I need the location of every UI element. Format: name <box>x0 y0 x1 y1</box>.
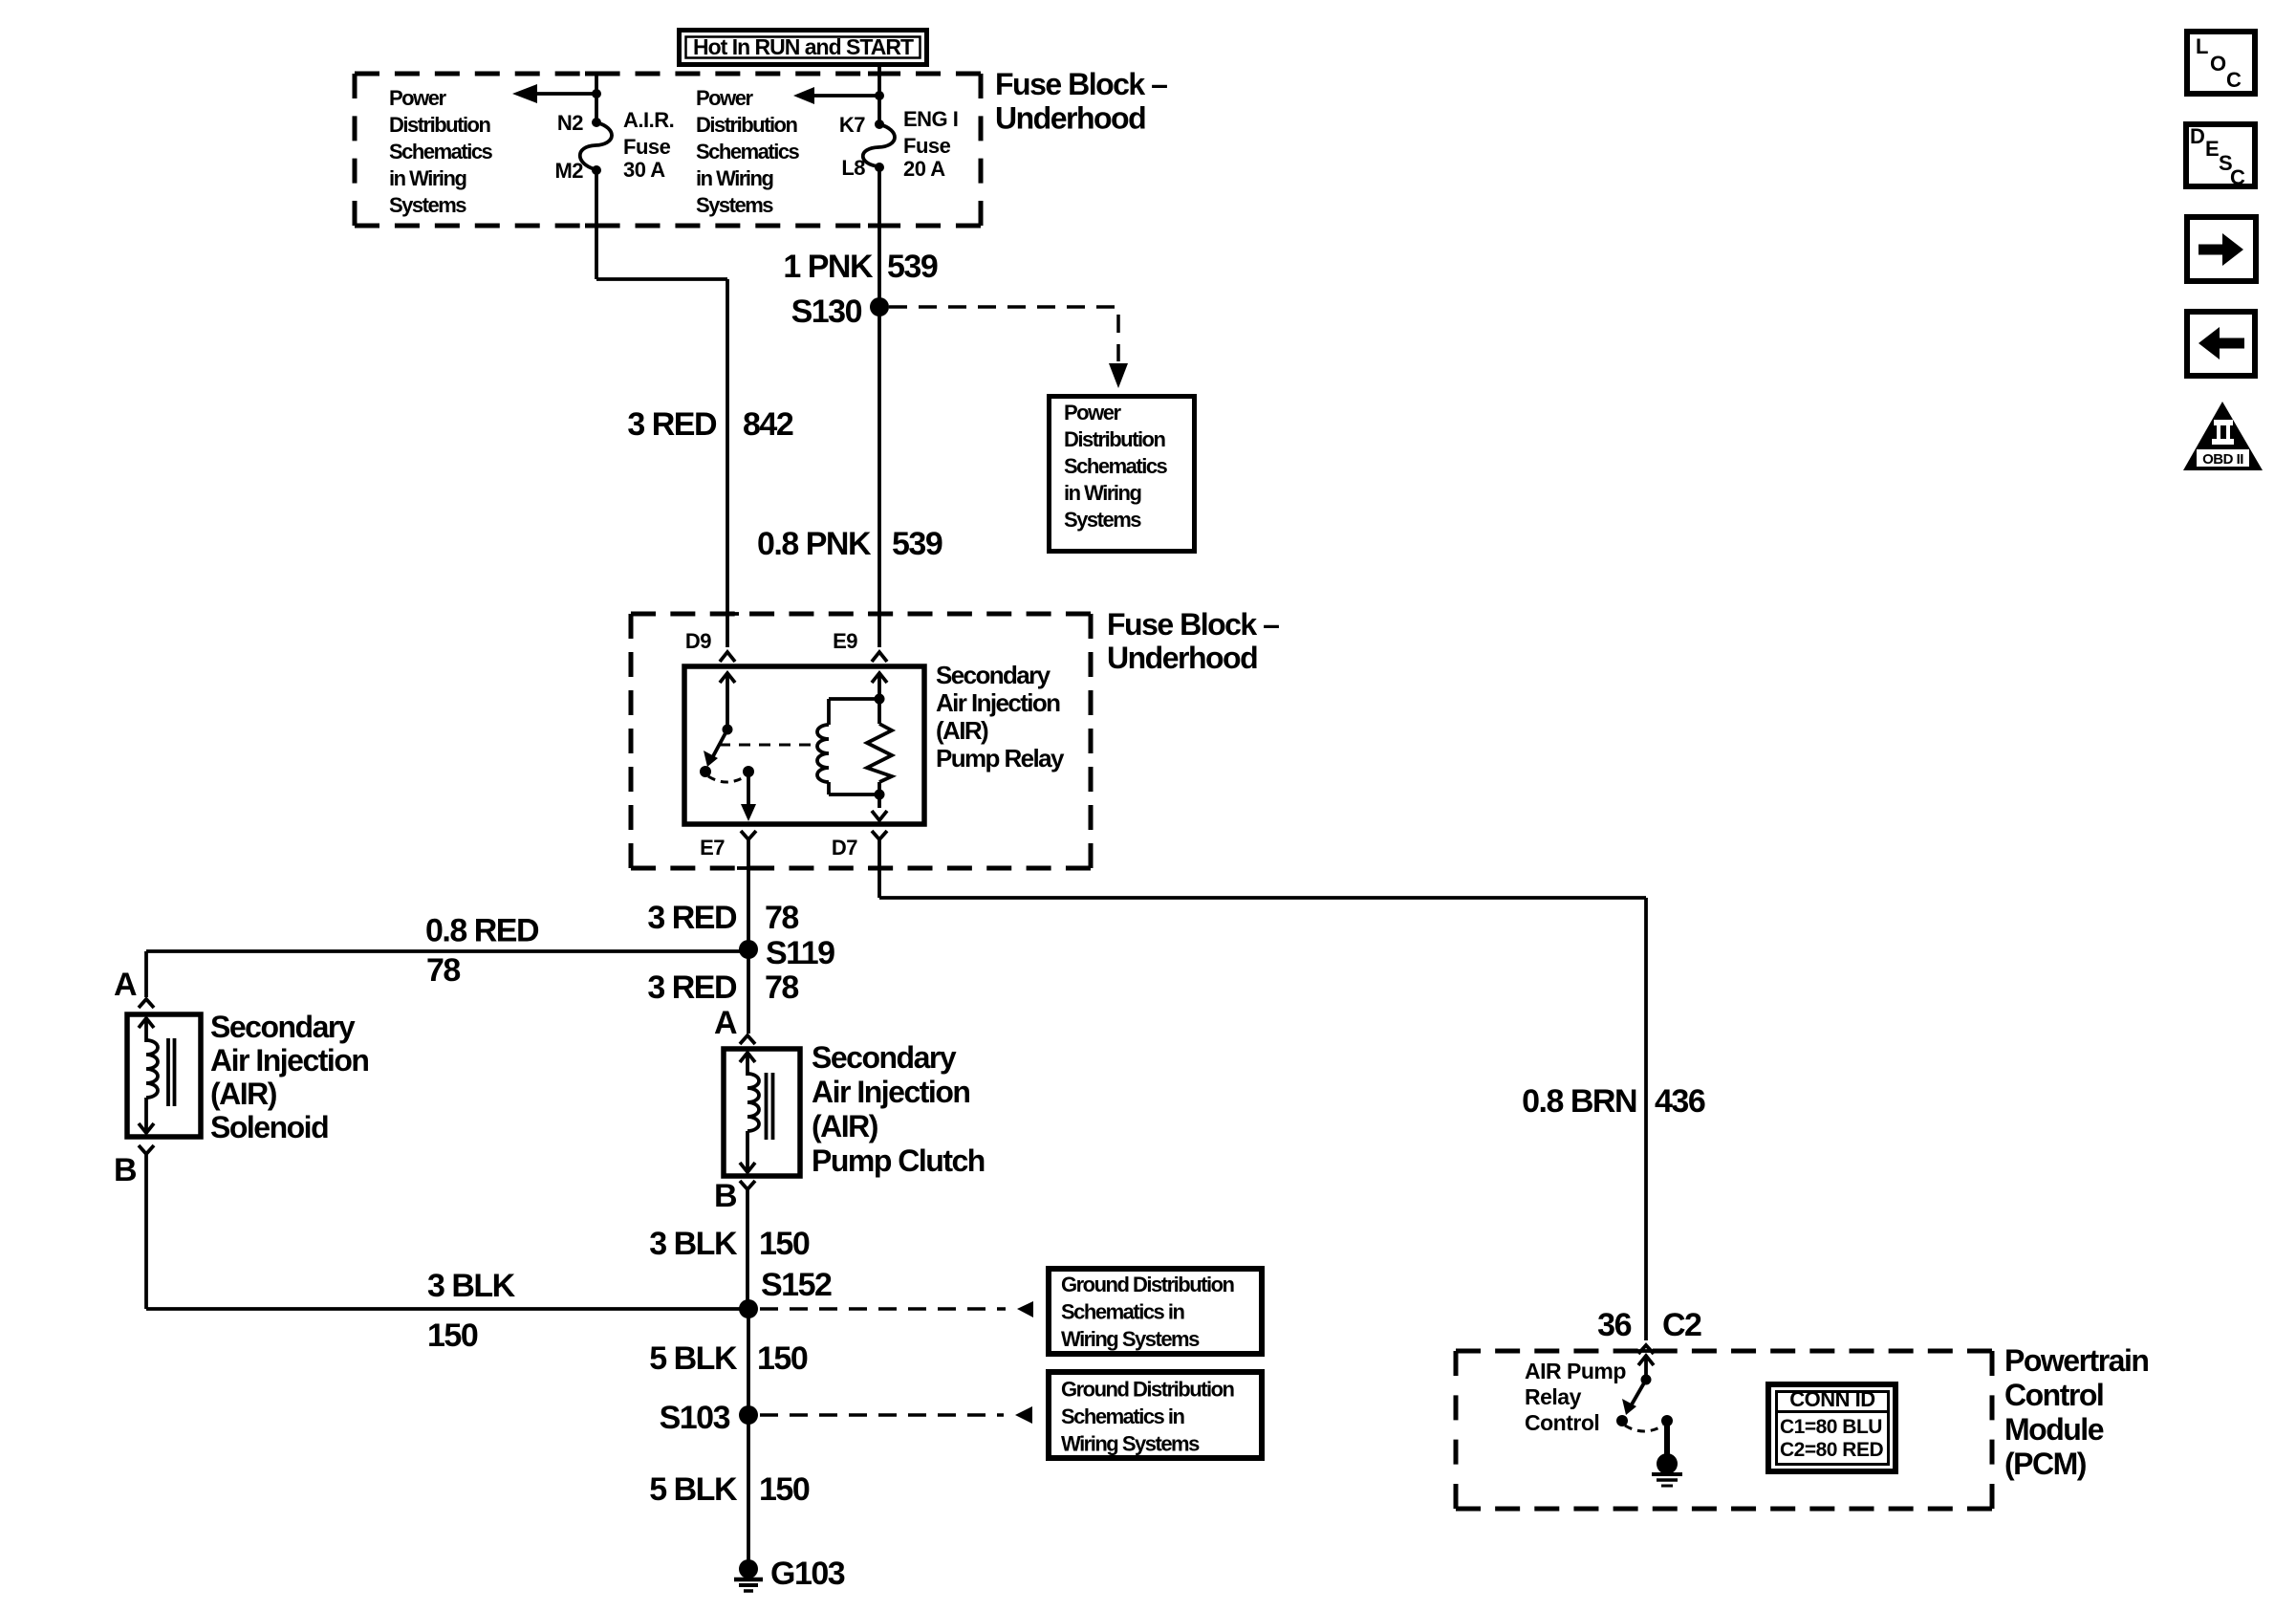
svg-text:E9: E9 <box>833 629 857 653</box>
svg-text:OBD II: OBD II <box>2202 451 2243 468</box>
svg-text:D9: D9 <box>685 629 711 653</box>
svg-text:B: B <box>114 1152 137 1188</box>
svg-text:Underhood: Underhood <box>995 101 1145 136</box>
svg-text:Module: Module <box>2004 1412 2104 1447</box>
svg-text:842: 842 <box>743 406 793 443</box>
svg-text:(AIR): (AIR) <box>936 716 988 745</box>
svg-text:Underhood: Underhood <box>1107 641 1257 675</box>
svg-text:Power: Power <box>696 86 753 110</box>
svg-text:150: 150 <box>427 1317 478 1354</box>
svg-text:Power: Power <box>389 86 446 110</box>
svg-text:1 PNK: 1 PNK <box>783 249 874 285</box>
svg-text:Pump Clutch: Pump Clutch <box>812 1143 985 1178</box>
svg-text:Fuse Block –: Fuse Block – <box>995 67 1167 101</box>
svg-text:Powertrain: Powertrain <box>2004 1343 2148 1378</box>
svg-text:C: C <box>2230 165 2245 189</box>
svg-text:Air Injection: Air Injection <box>812 1075 969 1109</box>
svg-text:ENG I: ENG I <box>903 107 958 131</box>
svg-text:5 BLK: 5 BLK <box>649 1471 738 1508</box>
svg-text:150: 150 <box>759 1226 810 1262</box>
svg-text:in Wiring: in Wiring <box>389 166 466 190</box>
svg-text:L8: L8 <box>841 156 865 180</box>
svg-text:Wiring Systems: Wiring Systems <box>1061 1327 1200 1351</box>
svg-text:30 A: 30 A <box>623 158 665 182</box>
svg-text:Ground Distribution: Ground Distribution <box>1061 1378 1235 1402</box>
svg-text:C2=80 RED: C2=80 RED <box>1780 1439 1883 1461</box>
svg-text:Solenoid: Solenoid <box>210 1110 328 1144</box>
svg-text:20 A: 20 A <box>903 157 945 181</box>
svg-text:C2: C2 <box>1662 1307 1701 1343</box>
svg-text:D7: D7 <box>832 836 857 860</box>
svg-text:Power: Power <box>1064 401 1121 425</box>
svg-text:Systems: Systems <box>696 193 773 217</box>
svg-text:in Wiring: in Wiring <box>696 166 772 190</box>
svg-text:Air Injection: Air Injection <box>210 1043 368 1078</box>
svg-text:Systems: Systems <box>389 193 466 217</box>
svg-text:Fuse: Fuse <box>623 135 671 159</box>
svg-text:5 BLK: 5 BLK <box>649 1340 738 1377</box>
svg-text:Control: Control <box>1525 1410 1599 1435</box>
svg-text:Schematics: Schematics <box>1064 454 1168 478</box>
svg-text:E: E <box>2205 137 2219 161</box>
svg-text:Fuse Block –: Fuse Block – <box>1107 607 1279 642</box>
svg-text:539: 539 <box>892 526 942 562</box>
svg-text:539: 539 <box>887 249 938 285</box>
svg-text:K7: K7 <box>839 113 865 137</box>
svg-text:in Wiring: in Wiring <box>1064 481 1140 505</box>
svg-text:3 BLK: 3 BLK <box>649 1226 738 1262</box>
svg-text:0.8 PNK: 0.8 PNK <box>757 526 872 562</box>
svg-text:36: 36 <box>1597 1307 1631 1343</box>
svg-text:Secondary: Secondary <box>210 1010 356 1044</box>
svg-text:M2: M2 <box>554 159 583 183</box>
svg-text:C1=80 BLU: C1=80 BLU <box>1780 1416 1882 1438</box>
svg-text:CONN ID: CONN ID <box>1789 1387 1874 1411</box>
svg-text:Secondary: Secondary <box>936 661 1051 689</box>
svg-text:Relay: Relay <box>1525 1384 1582 1409</box>
svg-text:3 RED: 3 RED <box>647 900 737 936</box>
svg-text:S119: S119 <box>766 935 834 971</box>
svg-text:78: 78 <box>765 969 798 1006</box>
svg-text:Fuse: Fuse <box>903 134 951 158</box>
svg-text:(AIR): (AIR) <box>210 1077 277 1111</box>
svg-text:Ground Distribution: Ground Distribution <box>1061 1273 1235 1296</box>
svg-text:A: A <box>714 1005 737 1041</box>
svg-text:Secondary: Secondary <box>812 1040 957 1075</box>
svg-text:Systems: Systems <box>1064 508 1141 532</box>
svg-text:Wiring Systems: Wiring Systems <box>1061 1432 1200 1456</box>
svg-text:Pump Relay: Pump Relay <box>936 744 1065 773</box>
svg-text:G103: G103 <box>770 1556 845 1592</box>
svg-text:3 RED: 3 RED <box>647 969 737 1006</box>
svg-text:Distribution: Distribution <box>1064 427 1165 451</box>
svg-text:150: 150 <box>757 1340 808 1377</box>
svg-text:O: O <box>2210 52 2226 76</box>
svg-text:150: 150 <box>759 1471 810 1508</box>
svg-text:Schematics in: Schematics in <box>1061 1404 1185 1428</box>
svg-text:(AIR): (AIR) <box>812 1109 878 1143</box>
svg-text:78: 78 <box>765 900 798 936</box>
svg-text:A.I.R.: A.I.R. <box>623 108 674 132</box>
svg-text:Schematics: Schematics <box>696 140 800 163</box>
svg-text:N2: N2 <box>557 111 583 135</box>
svg-text:S152: S152 <box>761 1267 832 1303</box>
svg-text:L: L <box>2196 34 2208 58</box>
svg-text:A: A <box>114 967 137 1003</box>
svg-text:S103: S103 <box>660 1400 730 1436</box>
svg-text:Schematics in: Schematics in <box>1061 1300 1185 1324</box>
svg-text:Distribution: Distribution <box>389 113 490 137</box>
svg-text:Control: Control <box>2004 1378 2103 1412</box>
svg-text:0.8 RED: 0.8 RED <box>425 913 539 949</box>
svg-text:Air Injection: Air Injection <box>936 688 1060 717</box>
svg-text:3 BLK: 3 BLK <box>427 1268 516 1304</box>
svg-text:B: B <box>714 1178 737 1214</box>
svg-text:AIR Pump: AIR Pump <box>1525 1359 1626 1383</box>
svg-text:Hot In RUN and START: Hot In RUN and START <box>693 34 914 59</box>
svg-text:78: 78 <box>426 952 460 989</box>
svg-text:C: C <box>2226 68 2242 92</box>
svg-text:3 RED: 3 RED <box>627 406 717 443</box>
svg-text:436: 436 <box>1655 1083 1705 1120</box>
svg-text:(PCM): (PCM) <box>2004 1447 2087 1481</box>
svg-text:D: D <box>2190 124 2204 148</box>
svg-text:S130: S130 <box>791 294 862 330</box>
svg-text:E7: E7 <box>700 836 725 860</box>
svg-text:0.8 BRN: 0.8 BRN <box>1522 1083 1636 1120</box>
svg-text:Distribution: Distribution <box>696 113 797 137</box>
svg-text:Schematics: Schematics <box>389 140 493 163</box>
